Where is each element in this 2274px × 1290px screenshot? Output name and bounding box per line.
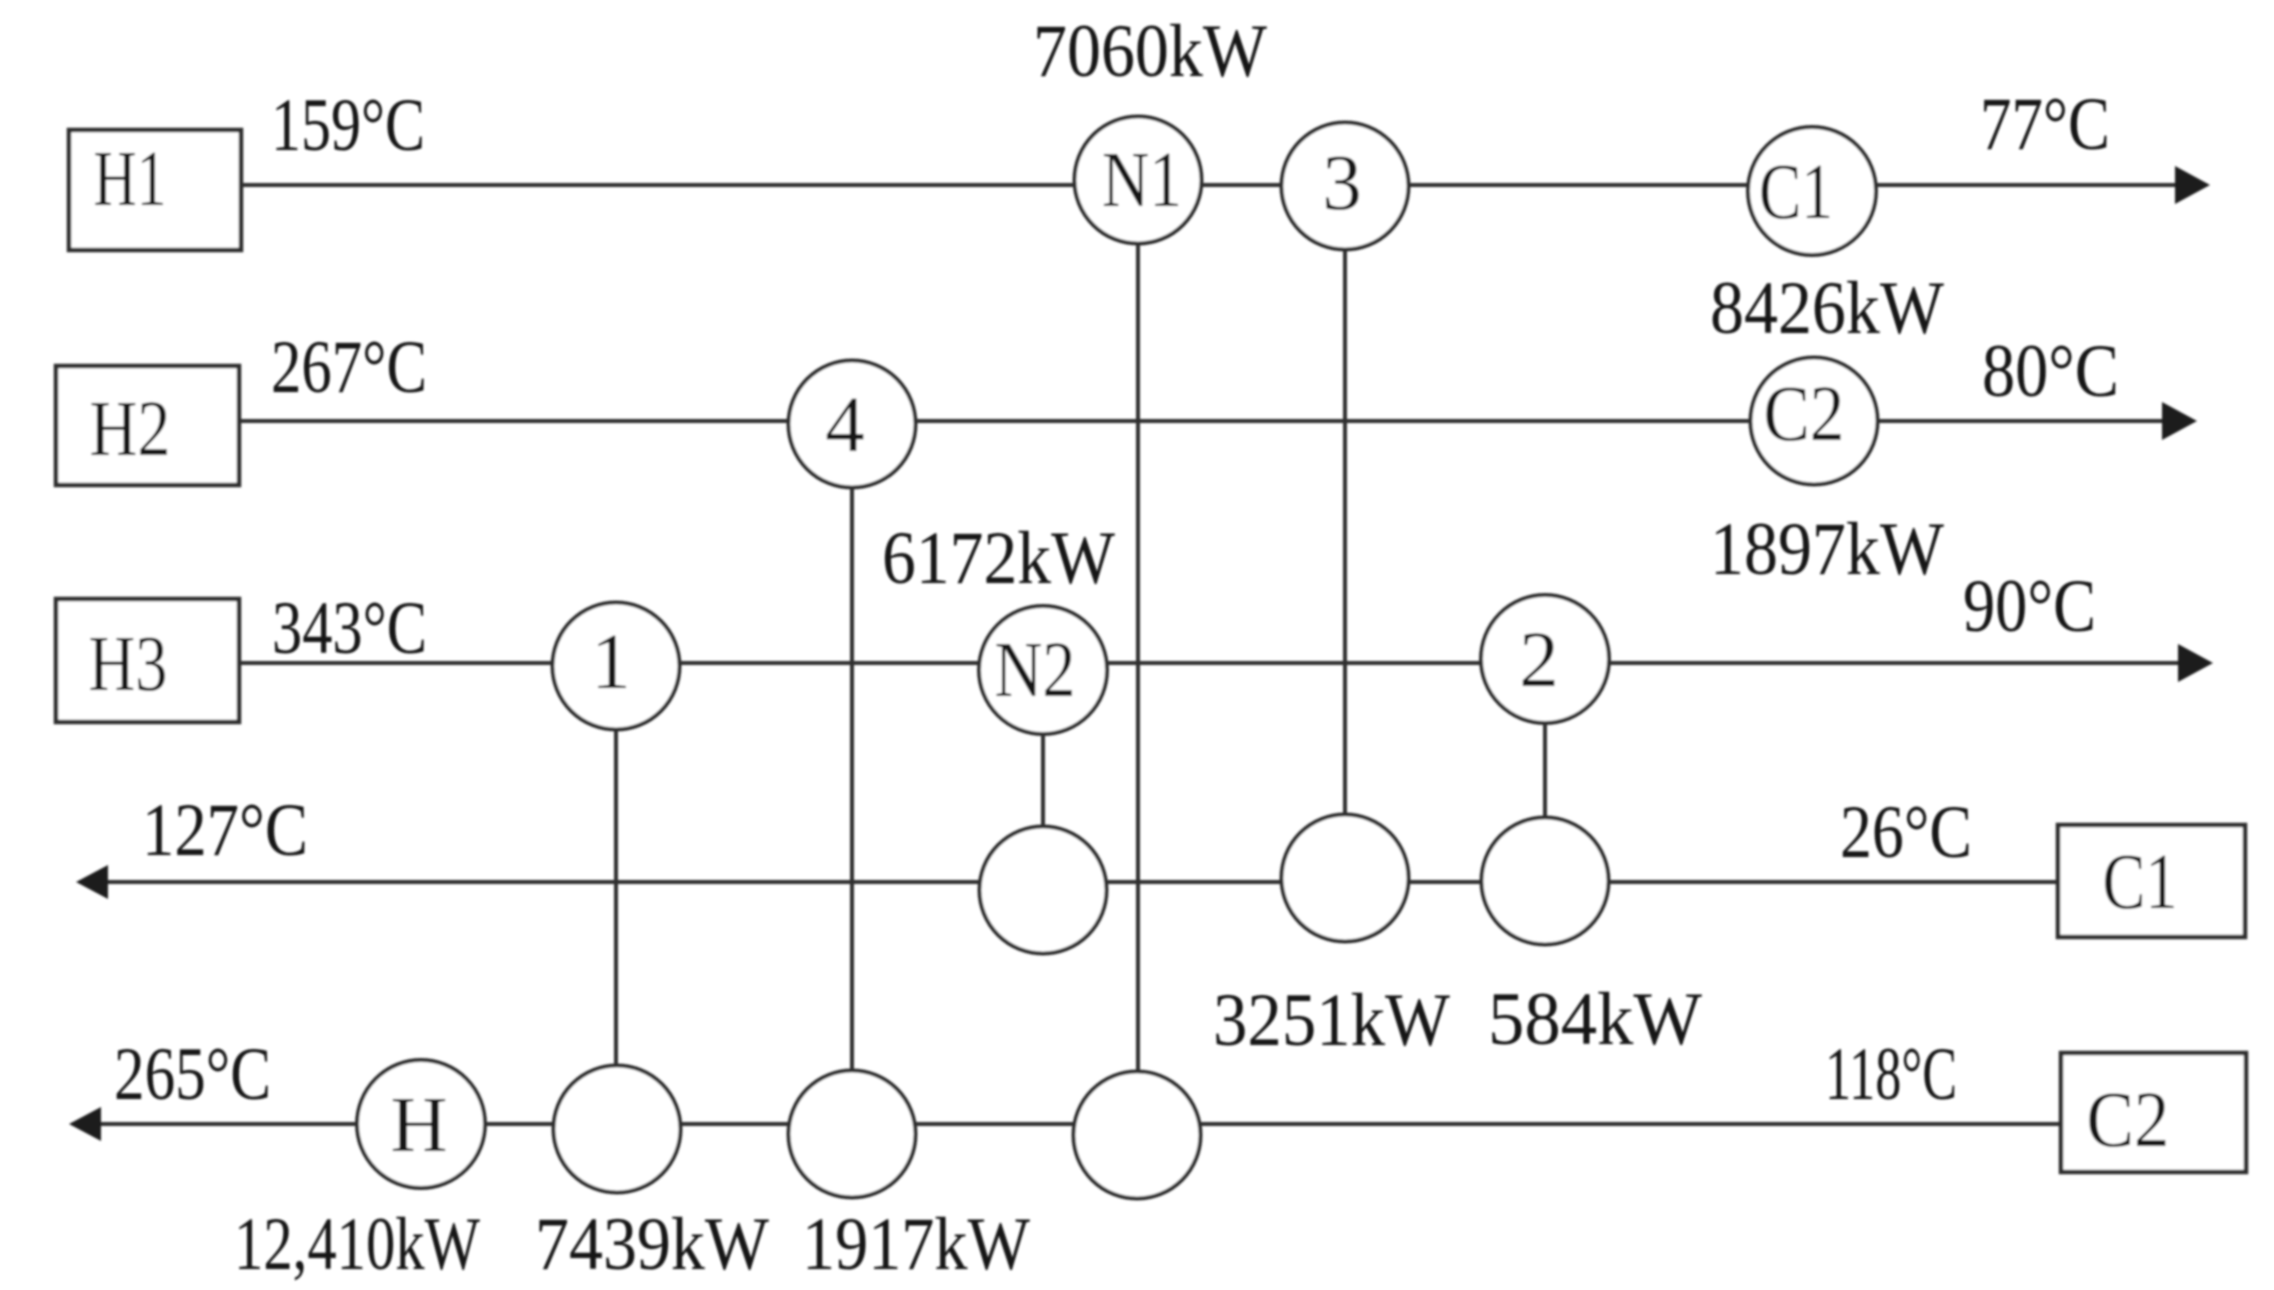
exchanger shell below 1 on C2 <box>554 1066 681 1193</box>
svg-text:12,410kW: 12,410kW <box>234 1203 480 1286</box>
svg-text:265°C: 265°C <box>114 1033 271 1116</box>
svg-text:1: 1 <box>591 619 631 706</box>
svg-text:159°C: 159°C <box>271 84 425 167</box>
box C2 right <box>2061 1053 2246 1172</box>
wire vertical match 4 <box>850 424 854 1133</box>
exchanger N1 <box>1075 117 1202 244</box>
wire H2 stream row <box>239 419 2165 423</box>
svg-text:7060kW: 7060kW <box>1033 10 1267 93</box>
svg-text:7439kW: 7439kW <box>535 1203 769 1286</box>
wire vertical match N2 <box>1041 670 1045 890</box>
cooler C2 <box>1751 358 1878 485</box>
exchanger 3 <box>1282 123 1409 250</box>
wire vertical match 2 <box>1543 659 1547 881</box>
exchanger 4 <box>789 361 916 488</box>
svg-text:267°C: 267°C <box>271 326 427 409</box>
svg-text:118°C: 118°C <box>1825 1033 1957 1116</box>
svg-text:8426kW: 8426kW <box>1710 267 1944 350</box>
wire C2 stream row <box>95 1122 2061 1126</box>
svg-text:127°C: 127°C <box>142 789 308 872</box>
svg-text:26°C: 26°C <box>1840 791 1972 874</box>
box H2 <box>56 366 239 485</box>
arrowhead H1 right <box>2175 166 2210 204</box>
svg-text:H2: H2 <box>90 386 171 473</box>
cooler C1 <box>1748 127 1876 255</box>
svg-text:584kW: 584kW <box>1488 978 1702 1061</box>
exchanger shell below 2 on C1 <box>1482 818 1609 945</box>
svg-text:C1: C1 <box>2103 839 2178 926</box>
exchanger shell below N1 on C2 <box>1074 1072 1201 1199</box>
wire H1 stream row <box>243 183 2178 187</box>
svg-text:H3: H3 <box>89 621 168 708</box>
wire H3 stream row <box>239 661 2181 665</box>
svg-text:90°C: 90°C <box>1963 565 2096 648</box>
wire vertical match 3 <box>1343 186 1347 878</box>
exchanger shell below N2 on C1 <box>980 827 1107 954</box>
arrowhead H3 right <box>2178 644 2213 682</box>
box H1 <box>69 130 241 250</box>
exchanger shell below 3 on C1 <box>1282 815 1409 942</box>
svg-text:1917kW: 1917kW <box>802 1203 1030 1286</box>
svg-text:343°C: 343°C <box>272 587 427 670</box>
box H3 <box>56 599 239 722</box>
svg-text:6172kW: 6172kW <box>882 517 1115 600</box>
exchanger shell below 4 on C2 <box>789 1071 916 1198</box>
heater H <box>357 1060 485 1188</box>
exchanger 1 <box>553 603 680 730</box>
svg-text:C2: C2 <box>1764 371 1845 458</box>
svg-text:4: 4 <box>825 382 865 469</box>
box C1 right <box>2058 825 2245 937</box>
arrowhead C2 left <box>69 1107 101 1141</box>
svg-text:C1: C1 <box>1759 149 1833 236</box>
svg-text:1897kW: 1897kW <box>1710 508 1944 591</box>
exchanger 2 <box>1481 595 1609 723</box>
exchanger N2 <box>979 606 1107 734</box>
arrowhead H2 right <box>2162 402 2197 440</box>
wire vertical match N1 <box>1136 185 1140 1134</box>
svg-text:N1: N1 <box>1102 137 1182 224</box>
svg-text:77°C: 77°C <box>1980 83 2110 166</box>
svg-text:2: 2 <box>1519 617 1559 704</box>
svg-text:3251kW: 3251kW <box>1213 979 1450 1062</box>
svg-text:3: 3 <box>1322 140 1362 227</box>
svg-text:C2: C2 <box>2087 1077 2170 1164</box>
arrowhead C1 left <box>76 865 108 899</box>
wire vertical match 1 <box>614 663 618 1128</box>
svg-text:H1: H1 <box>94 136 167 223</box>
svg-text:N2: N2 <box>995 627 1076 714</box>
wire C1 stream row <box>102 880 2058 884</box>
svg-text:80°C: 80°C <box>1982 330 2119 413</box>
svg-text:H: H <box>390 1082 447 1169</box>
